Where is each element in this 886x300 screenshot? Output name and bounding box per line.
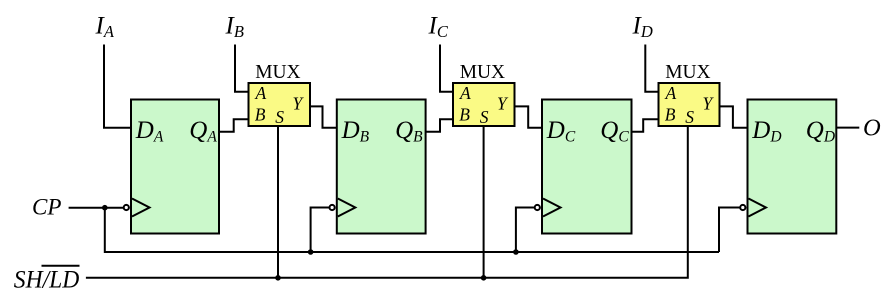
wire SH/LD rail and MUX3 S input [86, 126, 688, 278]
wire I_C to MUX2 A input [440, 45, 453, 92]
clock inversion bubble FF_D [740, 205, 745, 210]
svg-text:S: S [480, 107, 489, 127]
wire CP branch to FF_D clock [719, 208, 742, 253]
wire MUX1 S input to SH/LD rail [277, 126, 279, 278]
clock inversion bubble FF_A [124, 205, 129, 210]
svg-text:S: S [685, 107, 694, 127]
wire I_A to D_A input [104, 45, 131, 128]
wire MUX2 Y output to D_C input [515, 106, 543, 127]
flip-flop FF_D box [748, 100, 837, 234]
mux MUX1 box [249, 83, 311, 126]
wire CP branch to FF_C clock [516, 208, 536, 253]
junction CP rail to FF_C branch [513, 249, 519, 255]
wire Q_D to output O [836, 127, 859, 129]
mux MUX3 box [659, 83, 720, 126]
flip-flop FF_A box [131, 100, 219, 234]
svg-text:MUX: MUX [665, 61, 711, 83]
svg-text:SH/LD: SH/LD [14, 266, 80, 293]
svg-text:A: A [665, 83, 677, 103]
wire Q_A to MUX1 B input [219, 119, 249, 132]
wire MUX1 Y output to D_B input [310, 106, 337, 127]
mux MUX2 box [453, 83, 515, 126]
clock inversion bubble FF_B [330, 205, 335, 210]
svg-text:A: A [459, 83, 471, 103]
wire I_B to MUX1 A input [235, 45, 249, 92]
wire I_D to MUX3 A input [645, 45, 658, 92]
svg-text:B: B [255, 105, 266, 125]
clock edge triangle FF_B [338, 199, 356, 217]
svg-text:B: B [459, 105, 470, 125]
svg-text:A: A [255, 83, 267, 103]
flip-flop FF_B box [337, 100, 426, 234]
clock edge triangle FF_D [749, 199, 767, 217]
junction CP node at FF_A [102, 205, 108, 211]
wire MUX3 Y output to D_D input [720, 106, 748, 127]
wire Q_B to MUX2 B input [426, 119, 453, 132]
clock edge triangle FF_A [132, 199, 150, 217]
wire CP branch to FF_B clock [311, 208, 331, 253]
svg-text:MUX: MUX [460, 61, 506, 83]
svg-text:O: O [863, 114, 881, 141]
junction SH/LD rail to MUX2 S [481, 275, 487, 281]
flip-flop FF_C box [542, 100, 632, 234]
clock inversion bubble FF_C [535, 205, 540, 210]
junction CP rail to FF_B branch [308, 249, 314, 255]
wire MUX2 S input to SH/LD rail [483, 126, 485, 278]
svg-text:MUX: MUX [255, 61, 301, 83]
svg-text:B: B [665, 105, 676, 125]
wire CP distribution rail [105, 208, 719, 252]
clock edge triangle FF_C [543, 199, 561, 217]
overline of LD [42, 265, 80, 267]
junction SH/LD rail to MUX1 S [275, 275, 281, 281]
wire CP lead to FF_A clock [69, 207, 125, 209]
wire Q_C to MUX3 B input [632, 119, 659, 132]
svg-text:CP: CP [32, 195, 61, 220]
svg-text:S: S [275, 107, 284, 127]
